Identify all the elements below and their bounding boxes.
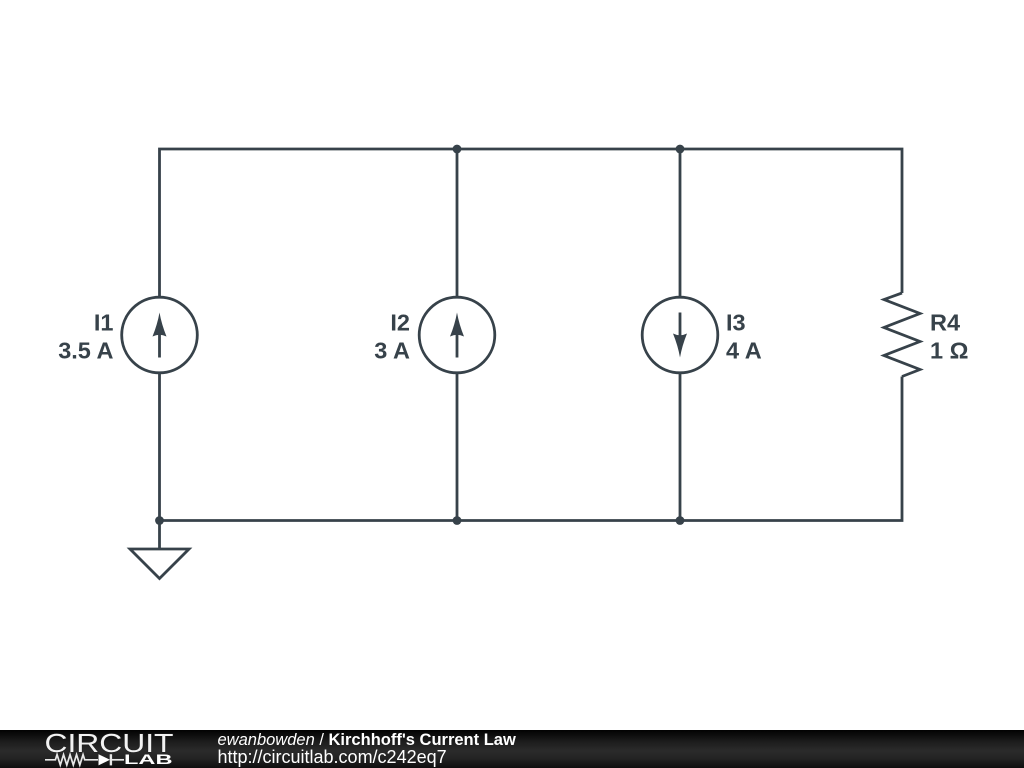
node junction top at I3 xyxy=(676,145,685,154)
current source I1 xyxy=(122,297,198,373)
svg-text:LAB: LAB xyxy=(124,752,173,767)
svg-text:I2: I2 xyxy=(390,310,410,336)
node junction top at I2 xyxy=(453,145,462,154)
svg-text:http://circuitlab.com/c242eq7: http://circuitlab.com/c242eq7 xyxy=(218,747,447,767)
svg-text:3 A: 3 A xyxy=(374,338,410,364)
label I1 value xyxy=(58,310,113,364)
node junction bottom at ground xyxy=(155,516,164,525)
svg-text:I3: I3 xyxy=(726,310,746,336)
current source I2 xyxy=(419,297,495,373)
CircuitLab logo resistor-diode glyph xyxy=(45,754,124,765)
wire I3 top xyxy=(679,149,682,297)
node junction bottom at I2 xyxy=(453,516,462,525)
current source I3 xyxy=(642,297,718,373)
wire top net: from I1 top to R4 top xyxy=(160,149,903,297)
svg-text:3.5 A: 3.5 A xyxy=(58,338,113,364)
ground xyxy=(130,521,189,579)
svg-text:I1: I1 xyxy=(94,310,114,336)
resistor R4 xyxy=(884,293,920,377)
footer bar xyxy=(0,730,1024,768)
wire I2 top xyxy=(456,149,459,297)
node junction bottom at I3 xyxy=(676,516,685,525)
wire bottom net: from I1 bottom to R4 bottom xyxy=(160,374,903,521)
svg-text:4 A: 4 A xyxy=(726,338,762,364)
label I3 value xyxy=(726,310,762,364)
svg-text:R4: R4 xyxy=(930,310,960,336)
svg-text:1 Ω: 1 Ω xyxy=(930,338,968,364)
wire I3 bottom xyxy=(679,374,682,521)
label R4 value xyxy=(930,310,968,364)
wire I2 bottom xyxy=(456,374,459,521)
label I2 value xyxy=(374,310,410,364)
